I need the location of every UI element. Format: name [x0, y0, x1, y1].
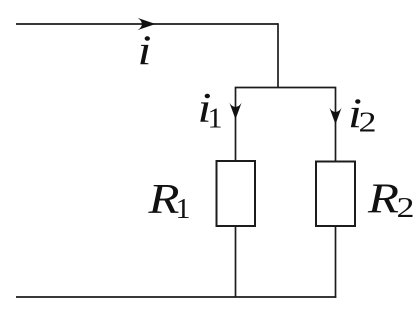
svg-text:1: 1	[176, 193, 191, 225]
wire: left branch upper	[235, 87, 237, 161]
svg-text:R: R	[367, 177, 399, 223]
resistor R2 body	[316, 162, 355, 227]
svg-text:2: 2	[397, 192, 415, 224]
arrowhead current i2 (downward)	[329, 108, 341, 125]
svg-text:2: 2	[359, 107, 377, 139]
wire: feed vertical drop	[277, 23, 279, 87]
arrowhead current i1 (downward)	[229, 103, 241, 120]
wire: bottom return horizontal	[16, 296, 336, 298]
svg-text:i: i	[138, 29, 152, 75]
wire: splitter bar (node between branches)	[236, 87, 336, 89]
resistor R1 body	[217, 161, 256, 226]
arrowhead current i (rightward)	[137, 18, 155, 31]
wire: top feed horizontal	[16, 23, 278, 25]
wire: left branch lower	[235, 226, 237, 297]
wire: right branch lower	[335, 226, 337, 298]
svg-text:1: 1	[208, 103, 223, 135]
wire: right branch upper	[335, 87, 337, 162]
